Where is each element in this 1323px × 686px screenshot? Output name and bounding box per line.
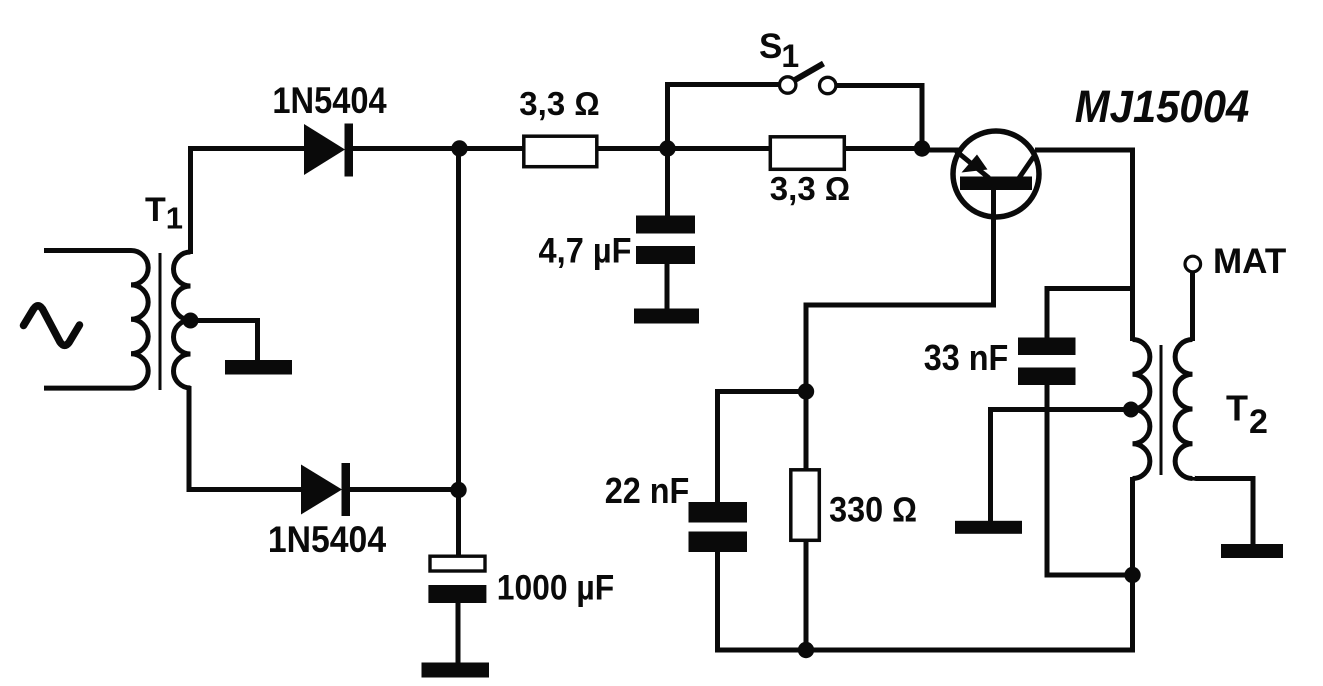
transformer T2 secondary winding (1175, 340, 1192, 479)
wire Q1 base down and left to node E (806, 189, 994, 389)
transformer T2 primary winding (1133, 340, 1150, 479)
wire bottom rail node F to T2 (806, 648, 1133, 653)
node F (798, 642, 814, 658)
wire MAT to T2 secondary top (1190, 272, 1195, 341)
wire node A down to node D (456, 149, 461, 492)
wire node D to capacitor C2 (456, 490, 461, 557)
svg-text:33 nF: 33 nF (924, 338, 1009, 378)
wire 33nF top to collector line (1047, 289, 1130, 340)
capacitor C4 33 nF (1018, 338, 1076, 386)
svg-text:4,7 µF: 4,7 µF (539, 231, 632, 270)
capacitor C1 4,7 uF (636, 216, 695, 265)
diode D2 1N5404 (301, 463, 350, 516)
resistor R1 3,3 ohm (524, 136, 597, 167)
resistor R3 330 ohm (791, 470, 820, 541)
ground (center tap stub) (955, 521, 1022, 534)
transformer T1 core (159, 253, 162, 390)
resistor R2 3,3 ohm (770, 137, 844, 170)
wire T1 secondary top to diode D1 (191, 149, 307, 255)
wire C4 bottom to node G (1047, 384, 1131, 575)
transistor Q1 MJ15004 (953, 131, 1039, 217)
svg-text:3,3 Ω: 3,3 Ω (770, 170, 850, 207)
ground (T1 center tap) (225, 360, 292, 375)
ground (C1) (634, 309, 699, 324)
wire node C to transistor emitter (922, 148, 961, 153)
node G (1124, 567, 1140, 583)
transformer T1 primary winding (44, 251, 148, 389)
wire D1 to node A (352, 146, 461, 151)
AC source squiggle (24, 306, 80, 346)
svg-text:MJ15004: MJ15004 (1075, 83, 1249, 133)
wire node E to resistor R3 (804, 392, 809, 471)
svg-text:1N5404: 1N5404 (272, 80, 387, 122)
wire node B up to switch S1 (668, 85, 780, 152)
svg-text:22 nF: 22 nF (605, 471, 690, 511)
node B (659, 140, 675, 156)
wire C1 to ground (665, 262, 670, 311)
wire ground stub to T2 center tap (991, 410, 1131, 523)
wire S1 to node C (837, 86, 923, 151)
wire node B down to capacitor C1 (665, 149, 670, 218)
wire node E to capacitor C3 22nF (718, 392, 809, 505)
ground (T2 secondary) (1221, 544, 1283, 558)
node E (798, 383, 814, 399)
svg-text:1000 µF: 1000 µF (497, 569, 614, 608)
capacitor C2 1000 uF (428, 556, 486, 603)
node A (451, 140, 467, 156)
node D (450, 482, 466, 498)
transformer T1 secondary winding (174, 252, 191, 388)
wire Q1 collector to T2 primary top (1035, 150, 1133, 341)
wire node B to resistor R2 (668, 146, 772, 151)
switch S1 (780, 64, 836, 94)
diode D1 1N5404 (304, 124, 353, 177)
node T2 center tap (1123, 402, 1139, 418)
wire T2 secondary bottom to ground (1193, 477, 1254, 545)
wire R1 to node B (597, 146, 669, 151)
svg-text:MAT: MAT (1213, 242, 1286, 281)
wire R3 to node F (804, 540, 809, 650)
svg-text:1N5404: 1N5404 (268, 518, 386, 560)
transformer T2 core (1160, 345, 1163, 475)
wire T1 center tap to ground (191, 321, 258, 361)
wire R2 to node C (843, 146, 924, 151)
wire T2 primary bottom to bottom rail (1130, 477, 1135, 653)
svg-text:330 Ω: 330 Ω (829, 490, 917, 529)
capacitor C3 22 nF (689, 502, 748, 552)
terminal MAT (1185, 256, 1201, 272)
ground (C2) (422, 663, 490, 678)
node C (914, 140, 930, 156)
svg-text:3,3 Ω: 3,3 Ω (519, 85, 599, 122)
wire C2 to ground (456, 603, 461, 665)
wire D2 to node D (349, 487, 459, 492)
wire T1 secondary bottom to diode D2 (189, 386, 303, 490)
wire C3 bottom to node F (718, 549, 809, 650)
wire node A to resistor R1 (459, 146, 524, 151)
node T1 center tap (183, 313, 199, 329)
